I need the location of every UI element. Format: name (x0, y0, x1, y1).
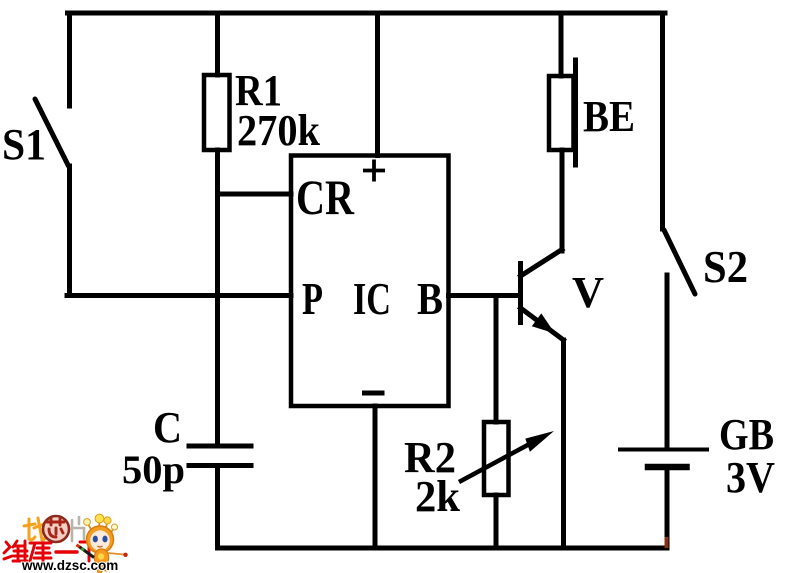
switch S2 blade (664, 230, 695, 294)
wire left rail lower (67, 166, 72, 296)
watermark mascot smile (98, 546, 103, 547)
svg-text:www.dzsc.com: www.dzsc.com (21, 558, 118, 573)
resistor R1 body (204, 75, 230, 150)
svg-text:BE: BE (583, 92, 635, 141)
buzzer BE side bar (573, 60, 578, 165)
wire B to base (449, 293, 521, 298)
wire R1 bottom stem to capacitor (215, 150, 220, 446)
wire battery bottom stem (665, 467, 670, 548)
watermark mascot face (90, 530, 110, 550)
wire left rail upper (67, 13, 72, 106)
capacitor C bottom plate (189, 463, 251, 468)
wire R2 top stem (494, 296, 499, 423)
watermark red text ku (30, 543, 51, 562)
pin minus sign (362, 391, 385, 396)
wire right rail (660, 13, 665, 229)
resistor R2 body (484, 422, 509, 495)
svg-text:B: B (417, 273, 443, 324)
watermark mascot body (94, 549, 108, 566)
wire CR feed (218, 192, 292, 197)
watermark magnifier with character xin (43, 516, 69, 542)
svg-text:3V: 3V (726, 453, 775, 502)
transistor V collector diagonal (521, 250, 563, 277)
pin plus sign (363, 160, 385, 182)
wire capacitor bottom stem (215, 466, 220, 549)
watermark mascot pen (79, 547, 94, 558)
wire R2 bottom stem (494, 495, 499, 548)
wire node P feed (67, 293, 291, 298)
svg-text:IC: IC (353, 273, 391, 324)
transistor V emitter arrow (532, 313, 555, 333)
svg-text:2k: 2k (415, 472, 460, 521)
watermark mascot right arm with red tip (108, 553, 124, 555)
svg-text:P: P (302, 273, 323, 324)
battery GB short plate (648, 464, 687, 471)
wire IC plus supply (375, 13, 380, 156)
svg-text:270k: 270k (237, 106, 320, 155)
watermark logo 找芯片 character zhao (24, 518, 45, 540)
wire bottom rail (218, 546, 668, 551)
watermark red text wei (4, 541, 27, 561)
svg-text:GB: GB (719, 410, 774, 459)
watermark character pian (72, 517, 84, 541)
wire BE top stem (559, 13, 564, 76)
wire collector to BE (560, 150, 565, 251)
wire top rail (68, 11, 666, 16)
watermark mascot legs (98, 565, 103, 573)
op-amp U1 IC box (291, 156, 449, 407)
svg-text:50p: 50p (122, 447, 185, 492)
wire R1 top stem (215, 13, 220, 75)
watermark red text xia (80, 542, 101, 561)
battery GB long plate (620, 448, 707, 452)
watermark mascot head (87, 526, 114, 553)
watermark red text yi (56, 550, 77, 553)
transistor V emitter diagonal (521, 308, 564, 340)
svg-text:V: V (572, 268, 604, 317)
wire IC minus to bottom rail (373, 406, 378, 548)
switch S1 blade (35, 99, 69, 166)
watermark mascot antenna balls (84, 519, 91, 526)
capacitor C top plate (189, 444, 251, 449)
wire battery top stem (665, 275, 670, 448)
transistor V base bar (518, 264, 523, 323)
wire emitter down (561, 340, 566, 548)
resistor R2 arrow (459, 431, 554, 482)
watermark mascot eyes (93, 536, 98, 543)
svg-text:CR: CR (296, 169, 355, 225)
svg-text:C: C (153, 403, 182, 452)
jpeg artifact red tint on battery corner (665, 537, 669, 548)
svg-text:S1: S1 (2, 120, 46, 169)
buzzer BE body (549, 76, 574, 150)
svg-text:S2: S2 (703, 241, 748, 292)
watermark mascot antenna stalks (88, 521, 114, 533)
